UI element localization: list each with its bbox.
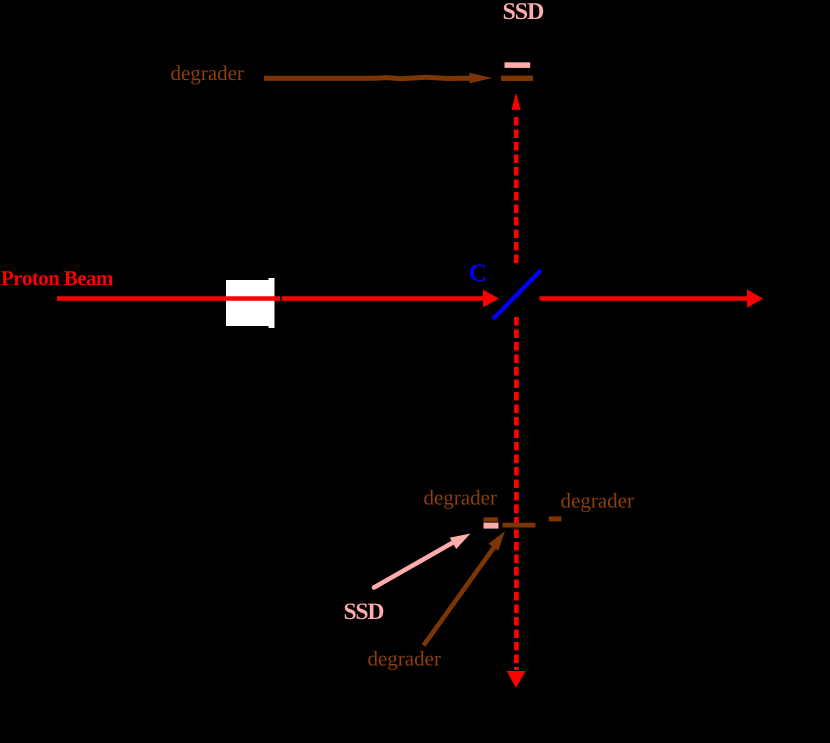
label degrader (bottom, right of axis)	[561, 493, 633, 512]
collimator block (white)	[226, 280, 269, 326]
label Proton Beam	[1, 271, 113, 285]
beam arrowhead at scatterer	[483, 290, 499, 308]
scattering foil (blue diagonal)	[493, 270, 541, 319]
degrader pointer arrow (brown)	[424, 546, 496, 646]
degrader dash (brown, right)	[549, 516, 562, 521]
pink arrowhead	[450, 534, 471, 550]
brown arrowhead	[489, 531, 506, 551]
down arrowhead (red, wide)	[507, 671, 526, 688]
label SSD (bottom)	[345, 603, 384, 619]
label degrader (top left)	[171, 65, 243, 84]
proton beam line (second segment to scatterer)	[282, 296, 484, 301]
label degrader (bottom pointer)	[368, 651, 440, 670]
label C (scattering foil)	[470, 264, 485, 281]
SSD pointer arrow (pink)	[374, 543, 453, 588]
up arrowhead (red, narrow)	[512, 93, 521, 110]
collimator end plate (white)	[269, 278, 275, 328]
degrader arrowhead (brown)	[470, 73, 493, 84]
SSD detector bar (pink, top)	[505, 62, 531, 68]
proton beam line (left segment)	[57, 296, 280, 301]
degrader arrow (brown, pointing right to top bar)	[264, 77, 472, 78]
proton beam line (right segment)	[540, 296, 749, 301]
scattered beam dashed arrow up	[514, 117, 519, 263]
small degrader dash (brown, left of axis)	[484, 517, 499, 521]
degrader bar (brown, long, on axis)	[503, 523, 536, 528]
beam exit arrowhead (red)	[747, 289, 763, 307]
small SSD dash (pink)	[484, 523, 499, 529]
degrader bar (brown, top)	[501, 76, 533, 81]
scattered beam dashed arrow down	[514, 317, 519, 670]
label degrader (bottom, left of axis)	[424, 490, 496, 509]
label SSD (top detector)	[504, 3, 543, 19]
